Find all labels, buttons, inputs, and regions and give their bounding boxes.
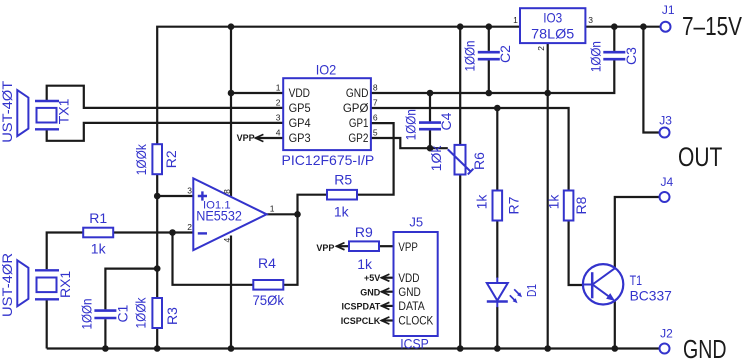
svg-text:3: 3 (276, 113, 281, 123)
svg-text:1k: 1k (546, 194, 562, 210)
svg-text:R2: R2 (163, 150, 179, 168)
wire C2 bottom link (488, 61, 490, 94)
op-amp IO1.1 triangle (193, 178, 266, 250)
wire J5 GND stub (381, 291, 393, 293)
capacitor C4 top plate (419, 121, 441, 124)
svg-text:1ØØk: 1ØØk (133, 143, 149, 175)
wire feedback node down to R4 left (173, 233, 254, 285)
op-amp minus symbol (198, 232, 207, 234)
wire IO3 pin 2 ground drop to bottom rail (547, 43, 549, 348)
svg-text:C3: C3 (623, 47, 639, 65)
transducer RX1 top plate (35, 269, 59, 271)
resistor R8 (564, 191, 574, 221)
svg-text:C4: C4 (438, 112, 454, 130)
svg-text:1k: 1k (357, 256, 373, 272)
svg-text:75Øk: 75Øk (252, 292, 284, 308)
wire R1 right to op-amp inverting input pin 2 (113, 231, 193, 233)
svg-text:1ØØk: 1ØØk (133, 297, 149, 329)
svg-text:R8: R8 (573, 196, 589, 214)
wire T1 emitter to ground rail (614, 301, 616, 349)
wire C4 bottom link (429, 130, 431, 148)
svg-text:TX1: TX1 (56, 98, 72, 124)
transducer TX1 top plate (35, 100, 59, 102)
svg-text:5: 5 (373, 128, 378, 138)
svg-text:GPØ: GPØ (343, 103, 369, 115)
transducer RX1 bottom plate (35, 298, 59, 300)
wire R6 bottom to ground rail (459, 174, 461, 348)
svg-text:+5V: +5V (364, 273, 380, 283)
node R6 on ground rail (457, 345, 464, 352)
wire C4 top link (429, 93, 431, 121)
svg-text:1: 1 (270, 204, 275, 214)
svg-text:CLOCK: CLOCK (398, 316, 433, 328)
node J3 tap on 7-15V line (640, 23, 647, 30)
svg-text:GP1: GP1 (349, 118, 369, 130)
svg-text:4: 4 (276, 128, 281, 138)
connector J5 ICSP body (394, 232, 438, 336)
node R7 tap on GP0 net (494, 105, 501, 112)
node C1 on ground rail (102, 345, 109, 352)
node bias node at +input (154, 193, 161, 200)
resistor R4 (253, 280, 283, 290)
wire VDD branch down through op-amp power pin 8 (230, 27, 232, 196)
svg-text:GND: GND (346, 88, 369, 100)
resistor R1 (83, 228, 113, 238)
wire GP2 net to R6 wiper (371, 138, 448, 148)
svg-text:1k: 1k (474, 194, 490, 210)
svg-text:R6: R6 (471, 152, 487, 170)
svg-text:NE5532: NE5532 (196, 208, 242, 224)
connector J1 terminal (661, 22, 671, 32)
svg-text:C1: C1 (115, 304, 131, 322)
svg-text:R9: R9 (355, 224, 373, 240)
wire R3 bottom to ground rail (156, 328, 158, 349)
LED D1 anode lead (496, 278, 498, 284)
arrowhead +5V at J5 (381, 274, 389, 281)
svg-text:6: 6 (373, 113, 378, 123)
trimmer R6 wiper arrow (448, 149, 471, 171)
svg-text:GP2: GP2 (348, 133, 368, 145)
wire RX1 bottom lead to ground rail (46, 301, 48, 349)
resistor R5 (327, 190, 357, 200)
svg-text:UST-4ØR: UST-4ØR (0, 253, 15, 317)
arrowhead GND at J5 (381, 288, 389, 295)
svg-text:R4: R4 (258, 255, 276, 271)
svg-text:GP3: GP3 (289, 133, 311, 145)
svg-text:R5: R5 (334, 172, 352, 188)
wire op-amp output pin 1 (267, 213, 298, 215)
svg-text:T1: T1 (630, 272, 643, 288)
svg-text:J4: J4 (660, 175, 673, 189)
capacitor C3 bottom plate (603, 58, 625, 61)
wire VDD to IO2 pin 1 (231, 92, 283, 94)
svg-text:C2: C2 (497, 45, 513, 63)
capacitor C2 bottom plate (478, 58, 500, 61)
wire +5V rail from R2 top to IO3 pin 1 (157, 27, 520, 145)
svg-text:1k: 1k (91, 241, 107, 257)
node C4 bottom on GP2 net (427, 145, 434, 152)
wire TX1 bottom lead to IO2 GP4 pin 3 (47, 123, 284, 141)
wire J1 feed from IO3 pin 3 (585, 26, 660, 28)
transducer RX1 crystal body (37, 278, 57, 293)
svg-text:ICSPDAT: ICSPDAT (341, 302, 380, 312)
transistor T1 emitter lead (593, 285, 612, 299)
node C3 top on 7-15V line (611, 23, 618, 30)
svg-text:2: 2 (536, 46, 546, 51)
node C4 top on GND net (427, 90, 434, 97)
svg-text:3: 3 (187, 186, 192, 196)
node op-amp pin 4 on ground rail (228, 345, 235, 352)
svg-text:GP5: GP5 (289, 103, 311, 115)
node C2 top on +5V rail (486, 23, 493, 30)
transducer TX1 crystal body (37, 108, 57, 123)
svg-text:GND: GND (683, 334, 727, 362)
wire GP0 node down to R7 top (496, 108, 498, 191)
IC IO3 78L05 body (520, 8, 585, 43)
IC IO2 PIC12F675 body (283, 78, 371, 150)
svg-text:VPP: VPP (398, 242, 418, 254)
op-amp plus symbol (198, 191, 207, 200)
wire J5 CLOCK stub (381, 319, 393, 321)
svg-text:J2: J2 (660, 327, 673, 341)
svg-text:D1: D1 (525, 284, 539, 297)
resistor R7 (493, 191, 503, 221)
svg-text:1k: 1k (334, 203, 350, 219)
svg-text:R3: R3 (164, 307, 180, 325)
transistor T1 collector lead (593, 268, 616, 285)
svg-text:8: 8 (222, 189, 232, 194)
svg-text:DATA: DATA (398, 301, 425, 313)
LED D1 light arrow 2 (514, 289, 519, 294)
transducer TX1 bottom plate (35, 128, 59, 130)
LED D1 light arrow 1 (510, 295, 515, 300)
transistor T1 base lead (583, 284, 592, 286)
node C2 bottom on GND net (486, 90, 493, 97)
wire R9 right to J5 VPP pin (379, 245, 394, 247)
node feedback tap on -input (169, 229, 176, 236)
transistor T1 base bar (591, 272, 594, 298)
svg-text:1ØØn: 1ØØn (79, 299, 95, 330)
node VDD pin branch (228, 90, 235, 97)
connector J3 terminal (660, 128, 670, 138)
node D1 on ground rail (494, 345, 501, 352)
node output node (294, 211, 301, 218)
wire GND net IO2 pin 8 to C3 bottom (371, 61, 614, 94)
connector J2 terminal (660, 344, 670, 354)
svg-text:1ØØn: 1ØØn (403, 109, 419, 140)
wire GP0 net to R8 top (371, 108, 569, 191)
node R3 on ground rail (154, 345, 161, 352)
transducer RX1 horn (17, 260, 28, 306)
svg-text:VPP: VPP (316, 243, 334, 253)
svg-text:GP4: GP4 (289, 118, 312, 130)
capacitor C2 top plate (478, 51, 500, 54)
wire R9 left to VPP arrow (337, 245, 349, 247)
svg-text:2: 2 (187, 222, 192, 232)
capacitor C1 bottom plate (94, 317, 116, 320)
trimmer R6 body (455, 145, 466, 175)
wire C2 top link (488, 27, 490, 51)
wire ground rail (47, 347, 660, 349)
svg-text:7–15V: 7–15V (682, 11, 743, 41)
svg-text:VDD: VDD (289, 88, 310, 100)
svg-text:J5: J5 (409, 214, 423, 229)
LED D1 cathode lead (496, 301, 498, 307)
svg-text:2: 2 (276, 98, 281, 108)
svg-text:3: 3 (588, 15, 593, 25)
arrowhead VPP at R9 (337, 243, 345, 250)
arrowhead ICSPCLK at J5 (381, 317, 389, 324)
wire R6 top to +5V rail (459, 27, 461, 145)
svg-text:GND: GND (360, 287, 381, 297)
LED D1 cathode bar (487, 300, 508, 302)
trimmer R6 arrowhead (468, 169, 474, 175)
wire bias node R2 bottom through to R3 top (156, 174, 158, 298)
svg-text:78LØ5: 78LØ5 (531, 25, 574, 41)
capacitor C4 bottom plate (419, 128, 441, 131)
capacitor C3 top plate (603, 51, 625, 54)
svg-text:VDD: VDD (398, 273, 419, 285)
resistor R2 (152, 144, 162, 174)
svg-text:ICSP: ICSP (400, 335, 429, 351)
wire IO2 GP3 VPP stub (255, 137, 283, 139)
svg-text:IO2: IO2 (316, 62, 337, 78)
svg-text:1Øk: 1Øk (428, 145, 444, 172)
svg-text:OUT: OUT (678, 142, 722, 172)
svg-text:VPP: VPP (237, 133, 255, 143)
svg-text:J1: J1 (662, 3, 675, 17)
svg-text:1ØØn: 1ØØn (587, 41, 603, 72)
wire J5 VDD stub (381, 277, 393, 279)
svg-text:R1: R1 (89, 210, 107, 226)
wire J3 branch (643, 27, 659, 133)
node R6 top on +5V rail (457, 23, 464, 30)
svg-text:1ØØn: 1ØØn (461, 41, 477, 72)
transistor T1 emitter arrow (606, 293, 615, 301)
LED D1 triangle (487, 283, 508, 301)
wire RX1 top lead to R1 left (47, 233, 83, 270)
svg-text:RX1: RX1 (57, 271, 73, 298)
wire R4 right up to R5 left (output node) (283, 195, 327, 285)
connector J4 terminal (660, 192, 670, 202)
node T1 emitter on ground rail (612, 345, 619, 352)
transistor T1 circle (583, 264, 623, 304)
svg-text:1: 1 (276, 83, 281, 93)
arrowhead ICSPDAT at J5 (381, 302, 389, 309)
svg-text:ICSPCLK: ICSPCLK (341, 316, 381, 326)
wire C1 bottom to ground rail (104, 319, 106, 348)
wire J5 DATA stub (381, 305, 393, 307)
svg-text:7: 7 (373, 98, 378, 108)
wire T1 collector to J4 (615, 197, 660, 268)
wire C3 top link (613, 27, 615, 51)
node C1/R3 bias junction (154, 265, 161, 272)
resistor R3 (152, 298, 162, 328)
svg-text:R7: R7 (506, 196, 522, 214)
svg-text:PIC12F675-I/P: PIC12F675-I/P (282, 152, 375, 168)
node IO3 pin 2 on GND net (544, 90, 551, 97)
wire R7 bottom to D1 anode (496, 221, 498, 278)
svg-text:J3: J3 (659, 113, 672, 127)
wire C1 top link to bias node (105, 269, 157, 310)
wire D1 cathode to ground rail (496, 307, 498, 349)
svg-text:1: 1 (513, 15, 518, 25)
svg-text:UST-4ØT: UST-4ØT (0, 80, 15, 142)
resistor R9 (349, 241, 379, 251)
svg-text:BC337: BC337 (630, 288, 672, 304)
node VDD tap on +5V rail (228, 23, 235, 30)
svg-text:8: 8 (373, 83, 378, 93)
wire op-amp pin 4 down to ground rail (230, 236, 232, 349)
node GND drop on ground rail (544, 345, 551, 352)
wire TX1 top lead to IO2 GP5 pin 2 (47, 86, 284, 108)
capacitor C1 top plate (94, 309, 116, 312)
svg-text:IO3: IO3 (543, 9, 562, 25)
svg-text:GND: GND (398, 287, 420, 299)
wire R8 bottom to T1 base (569, 221, 583, 286)
transducer TX1 horn (17, 90, 28, 136)
wire GP1 net down to R5 right (357, 123, 394, 195)
wire op-amp non-inverting input pin 3 (157, 195, 193, 197)
arrowhead VPP at GP3 (255, 134, 263, 141)
svg-text:4: 4 (222, 237, 232, 242)
